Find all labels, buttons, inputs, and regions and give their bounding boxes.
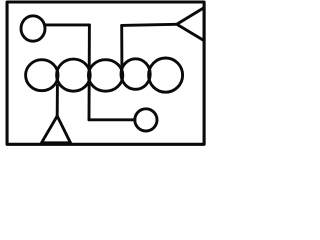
- border frame: [7, 2, 204, 144]
- terminal circle T1 (top-left): [21, 16, 45, 41]
- coil loop L1: [26, 60, 58, 91]
- coil loop L2: [57, 59, 91, 91]
- wire: [89, 118, 135, 121]
- terminal circle T2 (bottom-right): [135, 109, 157, 131]
- ground triangle: [42, 116, 71, 143]
- wire: [45, 23, 90, 26]
- wire: [56, 86, 59, 117]
- wire: [88, 25, 91, 120]
- coil loop L4: [121, 59, 150, 90]
- triangle marker (input arrow, top-right): [177, 8, 204, 41]
- wire: [120, 25, 123, 64]
- coil loop L3: [88, 60, 122, 92]
- coil loop L5: [149, 58, 183, 92]
- wire: [122, 24, 177, 25]
